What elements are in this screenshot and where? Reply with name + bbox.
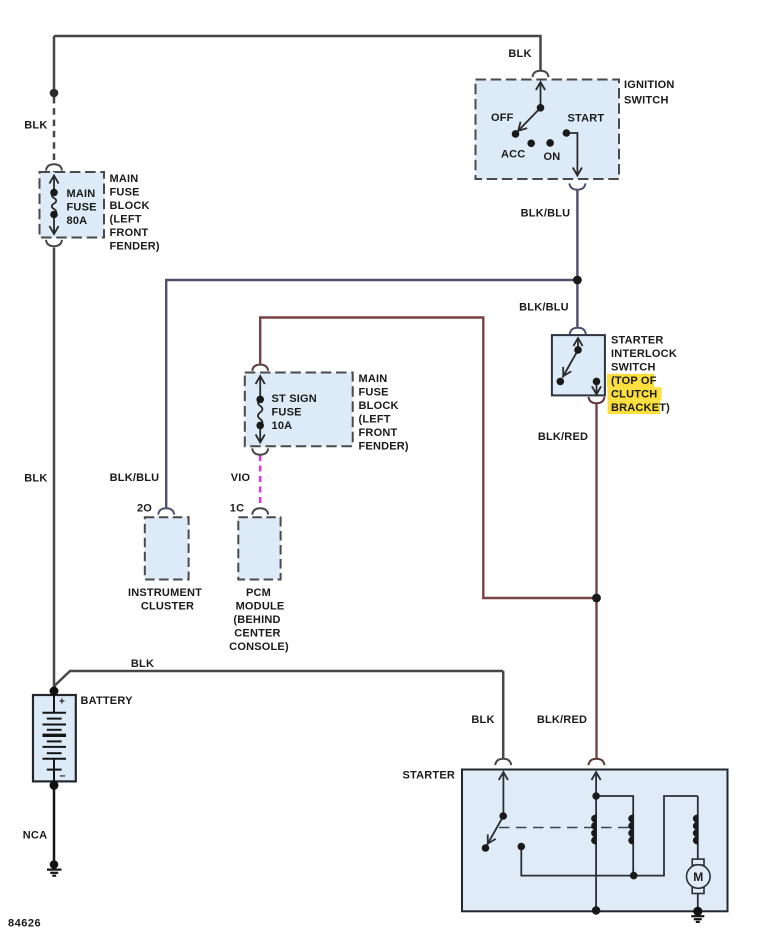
svg-text:80A: 80A bbox=[67, 215, 88, 227]
svg-text:1C: 1C bbox=[230, 503, 244, 515]
svg-text:BLK: BLK bbox=[131, 658, 154, 670]
svg-text:BLK: BLK bbox=[24, 120, 47, 132]
svg-text:BLK/RED: BLK/RED bbox=[538, 431, 588, 443]
svg-text:STARTER: STARTER bbox=[611, 335, 664, 347]
svg-text:ST SIGN: ST SIGN bbox=[272, 393, 317, 405]
svg-text:BRACKET): BRACKET) bbox=[611, 402, 670, 414]
svg-text:ON: ON bbox=[544, 151, 561, 163]
svg-text:CONSOLE): CONSOLE) bbox=[229, 641, 289, 653]
svg-text:BLK/RED: BLK/RED bbox=[537, 714, 587, 726]
svg-text:FUSE: FUSE bbox=[67, 202, 97, 214]
svg-text:STARTER: STARTER bbox=[403, 770, 456, 782]
svg-text:VIO: VIO bbox=[231, 472, 251, 484]
svg-text:FUSE: FUSE bbox=[359, 387, 389, 399]
svg-text:BLK: BLK bbox=[24, 473, 47, 485]
svg-text:MODULE: MODULE bbox=[236, 601, 285, 613]
svg-text:(BEHIND: (BEHIND bbox=[233, 614, 280, 626]
svg-text:FRONT: FRONT bbox=[359, 427, 398, 439]
svg-text:BLOCK: BLOCK bbox=[110, 200, 150, 212]
svg-text:ACC: ACC bbox=[501, 149, 525, 161]
svg-text:BLK/BLU: BLK/BLU bbox=[110, 472, 160, 484]
svg-text:INSTRUMENT: INSTRUMENT bbox=[128, 587, 202, 599]
svg-text:MAIN: MAIN bbox=[359, 373, 388, 385]
svg-text:BLK/BLU: BLK/BLU bbox=[521, 208, 571, 220]
svg-text:10A: 10A bbox=[272, 420, 293, 432]
svg-text:(LEFT: (LEFT bbox=[359, 414, 391, 426]
svg-text:START: START bbox=[568, 113, 605, 125]
svg-text:NCA: NCA bbox=[23, 830, 47, 842]
svg-text:(TOP OF: (TOP OF bbox=[611, 375, 657, 387]
svg-text:(LEFT: (LEFT bbox=[110, 214, 142, 226]
svg-text:PCM: PCM bbox=[246, 587, 271, 599]
svg-text:FENDER): FENDER) bbox=[110, 241, 160, 253]
svg-text:MAIN: MAIN bbox=[110, 173, 139, 185]
svg-text:BLK: BLK bbox=[471, 714, 494, 726]
svg-text:BLK/BLU: BLK/BLU bbox=[519, 302, 569, 314]
svg-text:FENDER): FENDER) bbox=[359, 441, 409, 453]
svg-text:SWITCH: SWITCH bbox=[611, 362, 656, 374]
svg-text:CLUSTER: CLUSTER bbox=[141, 601, 194, 613]
svg-text:MAIN: MAIN bbox=[67, 188, 96, 200]
svg-text:CENTER: CENTER bbox=[234, 628, 280, 640]
svg-text:M: M bbox=[693, 870, 703, 884]
svg-text:SWITCH: SWITCH bbox=[624, 95, 669, 107]
svg-text:2O: 2O bbox=[137, 503, 152, 515]
svg-text:BLOCK: BLOCK bbox=[359, 400, 399, 412]
svg-text:FRONT: FRONT bbox=[110, 227, 149, 239]
svg-text:INTERLOCK: INTERLOCK bbox=[611, 348, 677, 360]
svg-text:–: – bbox=[59, 770, 65, 782]
svg-text:BATTERY: BATTERY bbox=[81, 695, 134, 707]
svg-text:BLK: BLK bbox=[508, 48, 531, 60]
svg-text:84626: 84626 bbox=[8, 918, 41, 930]
svg-text:CLUTCH: CLUTCH bbox=[611, 389, 657, 401]
svg-text:FUSE: FUSE bbox=[272, 407, 302, 419]
svg-text:FUSE: FUSE bbox=[110, 187, 140, 199]
svg-text:+: + bbox=[59, 697, 65, 708]
svg-text:OFF: OFF bbox=[491, 112, 514, 124]
svg-text:IGNITION: IGNITION bbox=[624, 79, 675, 91]
